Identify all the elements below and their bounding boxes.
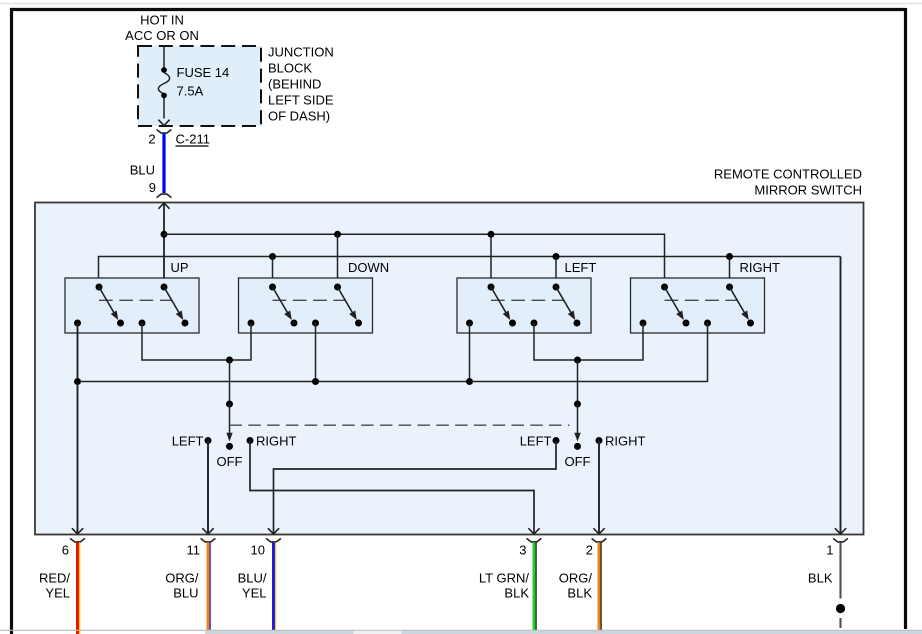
wire DOWN contact3 to H3	[315, 323, 317, 382]
selector 2 wiper	[577, 360, 579, 404]
svg-text:OF DASH): OF DASH)	[268, 109, 330, 124]
wire selector 2 feed (LEFT c3 to RIGHT c1)	[534, 323, 643, 360]
selector 1 RIGHT contact	[247, 437, 254, 444]
junction	[312, 378, 319, 385]
junction	[334, 231, 341, 238]
svg-text:BLU: BLU	[130, 163, 155, 178]
selector 2 RIGHT contact	[596, 437, 603, 444]
svg-text:ORG/: ORG/	[165, 571, 199, 586]
selector linkage (dashed)	[230, 424, 570, 426]
svg-text:REMOTE CONTROLLED: REMOTE CONTROLLED	[714, 167, 862, 182]
svg-text:OFF: OFF	[565, 454, 591, 469]
switch DOWN	[239, 278, 373, 333]
wire selector 1 feed (UP c3 to DOWN c1)	[142, 323, 251, 360]
mechanical linkage (dashed)	[491, 299, 565, 301]
switch RIGHT pole 1	[661, 284, 668, 291]
wire H1 to DOWN common	[337, 234, 339, 287]
junction	[488, 231, 495, 238]
wire pin 9 feed into switch	[158, 203, 169, 209]
fuse FUSE 14 7.5A	[161, 67, 167, 73]
wire H2 to pin 1 BLK	[840, 257, 842, 535]
svg-text:BLK: BLK	[504, 586, 529, 601]
svg-text:HOT IN: HOT IN	[140, 13, 184, 28]
wire selector2 LEFT to pin 10	[274, 441, 557, 535]
svg-text:MIRROR SWITCH: MIRROR SWITCH	[754, 183, 862, 198]
wire BLU	[162, 134, 165, 194]
wire feed into fuse	[163, 46, 165, 68]
wire selector1 RIGHT to pin 3	[250, 441, 534, 535]
wire H1 to LEFT common	[490, 234, 492, 287]
switch LEFT contacts	[466, 320, 473, 327]
wire	[598, 542, 601, 630]
selector 1 OFF contact	[226, 443, 233, 450]
svg-text:UP: UP	[171, 260, 189, 275]
junction block (dashed box)	[138, 46, 261, 126]
switch DOWN pole 1	[269, 284, 276, 291]
svg-text:C-211: C-211	[176, 132, 210, 147]
wire H2 to LEFT common	[555, 257, 557, 288]
wire	[272, 542, 275, 630]
wire H2 to RIGHT common	[729, 257, 731, 288]
svg-text:DOWN: DOWN	[348, 260, 389, 275]
selector 1 LEFT contact	[205, 437, 212, 444]
svg-text:LT GRN/: LT GRN/	[479, 571, 529, 586]
svg-text:RIGHT: RIGHT	[605, 434, 646, 449]
svg-text:JUNCTION: JUNCTION	[268, 45, 334, 60]
junction	[161, 231, 168, 238]
svg-text:ACC OR ON: ACC OR ON	[125, 28, 199, 43]
junction	[574, 357, 581, 364]
switch RIGHT	[631, 278, 765, 333]
switch LEFT pole 2	[553, 284, 560, 291]
bus H2 return	[99, 257, 841, 288]
connector pin 2	[592, 538, 607, 542]
switch DOWN contacts	[248, 320, 255, 327]
svg-text:10: 10	[251, 543, 265, 558]
junction	[269, 253, 276, 260]
svg-text:LEFT: LEFT	[565, 260, 597, 275]
wire BLK continues (dashed)	[839, 618, 841, 628]
svg-text:RED/: RED/	[39, 571, 70, 586]
svg-text:1: 1	[826, 543, 833, 558]
bus H1 supply	[164, 234, 665, 287]
svg-text:(BEHIND: (BEHIND	[268, 77, 321, 92]
wire H2 to DOWN common	[272, 257, 274, 288]
wire LEFT contact1 to H3	[469, 323, 471, 382]
switch UP contacts	[74, 320, 81, 327]
connector C-211 pin 2	[157, 130, 172, 134]
wire	[207, 542, 210, 630]
selector 2 OFF contact	[574, 443, 581, 450]
svg-text:9: 9	[149, 180, 156, 195]
svg-text:RIGHT: RIGHT	[256, 434, 297, 449]
mechanical linkage (dashed)	[273, 299, 347, 301]
svg-text:3: 3	[519, 543, 526, 558]
svg-text:LEFT: LEFT	[520, 434, 552, 449]
selector 2 LEFT contact	[553, 437, 560, 444]
connector pin 10	[266, 538, 281, 542]
mechanical linkage (dashed)	[99, 299, 173, 301]
switch UP pole 1	[96, 284, 103, 291]
wire	[533, 542, 536, 630]
junction on BLK wire	[836, 604, 845, 613]
mirror switch body	[35, 203, 864, 535]
svg-text:LEFT: LEFT	[172, 434, 204, 449]
wire selector2 RIGHT to pin 2	[598, 441, 600, 535]
switch LEFT	[457, 278, 591, 333]
switch DOWN pole 2	[334, 284, 341, 291]
connector pin 11	[201, 538, 216, 542]
junction	[466, 378, 473, 385]
connector pin 1	[833, 538, 848, 542]
bus H3 (pin 6 net)	[78, 323, 708, 382]
switch RIGHT contacts	[640, 320, 647, 327]
svg-text:YEL: YEL	[45, 586, 70, 601]
svg-text:2: 2	[586, 543, 593, 558]
switch LEFT pole 1	[488, 284, 495, 291]
connector pin 9	[157, 194, 172, 198]
mechanical linkage (dashed)	[665, 299, 739, 301]
wire	[76, 542, 79, 634]
svg-text:BLOCK: BLOCK	[268, 61, 312, 76]
svg-text:ORG/: ORG/	[559, 571, 593, 586]
svg-text:6: 6	[62, 543, 69, 558]
svg-text:FUSE 14: FUSE 14	[177, 65, 230, 80]
svg-text:BLK: BLK	[808, 571, 833, 586]
junction	[226, 357, 233, 364]
junction	[726, 253, 733, 260]
svg-text:2: 2	[148, 132, 155, 147]
svg-text:BLU/: BLU/	[238, 571, 267, 586]
svg-text:YEL: YEL	[242, 586, 267, 601]
junction	[553, 253, 560, 260]
svg-text:BLK: BLK	[567, 586, 592, 601]
connector pin 6	[70, 538, 85, 542]
selector 1 wiper	[229, 360, 231, 404]
svg-text:7.5A: 7.5A	[177, 83, 204, 98]
svg-text:OFF: OFF	[217, 454, 243, 469]
junction	[74, 378, 81, 385]
svg-text:11: 11	[187, 543, 201, 558]
switch RIGHT pole 2	[726, 284, 733, 291]
svg-text:LEFT SIDE: LEFT SIDE	[268, 93, 334, 108]
switch UP pole 2	[161, 284, 168, 291]
wire fuse to connector C-211	[163, 98, 165, 119]
connector pin 3	[527, 538, 542, 542]
svg-text:BLU: BLU	[173, 586, 198, 601]
svg-text:RIGHT: RIGHT	[740, 260, 781, 275]
wire UP contact1 to pin 6	[77, 323, 79, 534]
wire BLK	[839, 542, 841, 598]
wire selector1 LEFT to pin 11	[207, 441, 209, 535]
switch UP	[65, 278, 199, 333]
